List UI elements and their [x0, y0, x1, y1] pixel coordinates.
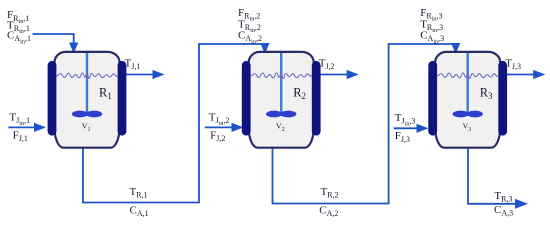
node feed labels reactor 2 [238, 7, 262, 46]
svg-text:TJin,3: TJin,3 [395, 112, 416, 128]
wire jacket coolant inlet 3 [394, 127, 418, 129]
wire reactor 2 outlet to reactor 3 [273, 44, 456, 204]
node jacket inlet labels 2 [209, 111, 230, 143]
wire jacket coolant outlet 2 [320, 74, 347, 76]
wire reactor 3 product outlet [468, 147, 516, 204]
wire feed line into reactor 1 [33, 34, 74, 44]
svg-text:TR,2: TR,2 [321, 186, 339, 200]
node jacket inlet labels 1 [9, 111, 30, 143]
wire jacket coolant inlet 2 [205, 126, 233, 128]
svg-text:FJ,2: FJ,2 [210, 130, 225, 144]
jacket bar right 3 [498, 65, 507, 131]
liquid surface wave 1 [57, 73, 119, 79]
impeller 3 [453, 111, 483, 118]
wire jacket coolant outlet 3 [507, 74, 534, 76]
liquid surface wave 3 [437, 73, 499, 79]
wire jacket coolant inlet 1 [8, 126, 35, 128]
svg-text:TR,1: TR,1 [130, 186, 148, 200]
svg-text:TJin,1: TJin,1 [9, 111, 30, 127]
svg-text:FJ,3: FJ,3 [395, 130, 410, 144]
svg-text:CA,3: CA,3 [494, 204, 513, 218]
liquid surface wave 2 [251, 73, 313, 79]
wire jacket coolant outlet 1 [126, 74, 153, 76]
stirrer shaft 3 [467, 53, 469, 113]
reactor vessel R1 [55, 52, 120, 148]
reactor vessel R3 [435, 52, 500, 148]
node outlet stream labels 3 [494, 190, 513, 218]
stirrer shaft 2 [280, 53, 282, 113]
wire reactor 1 outlet to reactor 2 [83, 44, 265, 203]
impeller 2 [266, 111, 296, 118]
node outlet stream labels 2 [319, 186, 338, 218]
svg-text:CA,1: CA,1 [130, 205, 149, 219]
svg-text:TJ,2: TJ,2 [319, 57, 335, 71]
jacket bar left 3 [428, 65, 437, 131]
jacket bar right 2 [312, 65, 321, 131]
jacket bar left 2 [242, 65, 251, 131]
svg-text:TJ,3: TJ,3 [505, 57, 521, 71]
reactor vessel R2 [249, 52, 314, 148]
impeller 1 [72, 111, 102, 118]
jacket bar left 1 [48, 65, 57, 131]
svg-text:CA,2: CA,2 [319, 205, 338, 219]
jacket bar right 1 [118, 65, 127, 131]
node feed labels reactor 1 [7, 9, 31, 45]
node outlet stream labels 1 [130, 186, 149, 218]
svg-text:TJ,1: TJ,1 [125, 57, 141, 71]
stirrer shaft 1 [86, 53, 88, 113]
svg-text:FJ,1: FJ,1 [13, 130, 28, 144]
svg-text:TR,3: TR,3 [494, 190, 512, 204]
svg-text:TJin,2: TJin,2 [209, 111, 230, 127]
node feed labels reactor 3 [420, 7, 444, 46]
node jacket inlet labels 3 [395, 112, 416, 144]
